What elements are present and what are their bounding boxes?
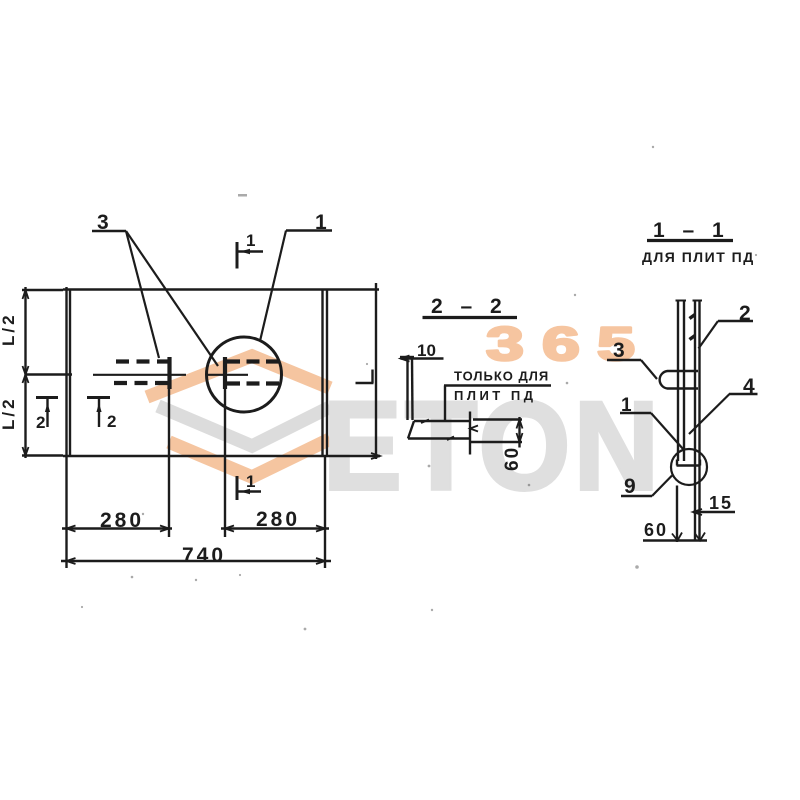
svg-text:ДЛЯ ПЛИТ ПД: ДЛЯ ПЛИТ ПД: [642, 249, 755, 265]
svg-text:2 – 2: 2 – 2: [431, 295, 508, 318]
svg-text:6: 6: [542, 318, 580, 370]
svg-text:ТОЛЬКО ДЛЯ: ТОЛЬКО ДЛЯ: [454, 369, 549, 384]
svg-text:2: 2: [107, 412, 116, 431]
svg-text:280: 280: [100, 509, 144, 532]
svg-text:1: 1: [246, 472, 255, 491]
svg-text:740: 740: [182, 544, 226, 567]
svg-text:2: 2: [36, 413, 45, 432]
svg-text:2: 2: [739, 302, 751, 325]
svg-text:1: 1: [315, 211, 327, 234]
svg-text:15: 15: [709, 493, 733, 513]
svg-text:L/2: L/2: [0, 396, 18, 430]
svg-text:L/2: L/2: [0, 312, 18, 346]
svg-text:3: 3: [613, 339, 625, 362]
svg-text:60: 60: [644, 520, 668, 540]
svg-text:ПЛИТ ПД: ПЛИТ ПД: [454, 388, 536, 403]
svg-text:280: 280: [256, 508, 300, 531]
svg-text:3: 3: [486, 318, 524, 370]
svg-text:4: 4: [743, 375, 755, 398]
svg-text:9: 9: [624, 475, 636, 498]
svg-text:60: 60: [502, 446, 523, 471]
svg-text:10: 10: [417, 341, 436, 360]
svg-text:1 – 1: 1 – 1: [653, 219, 730, 242]
svg-text:1: 1: [621, 395, 632, 416]
svg-text:1: 1: [246, 231, 255, 250]
svg-text:3: 3: [97, 211, 109, 234]
